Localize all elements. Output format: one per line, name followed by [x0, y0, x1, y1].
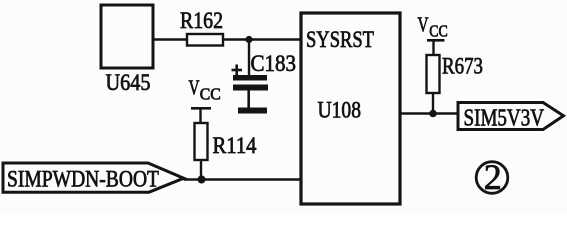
svg-text:U645: U645	[106, 70, 151, 95]
svg-text:CC: CC	[200, 85, 221, 104]
svg-text:2: 2	[484, 157, 502, 197]
net flag SIM5V3V	[458, 103, 564, 132]
svg-text:SIM5V3V: SIM5V3V	[464, 106, 545, 132]
resistor R162	[180, 8, 223, 46]
svg-text:CC: CC	[429, 21, 448, 40]
wire U645 to R162	[154, 38, 187, 40]
wire R162 to U108	[223, 38, 300, 40]
resistor R114	[195, 123, 257, 160]
svg-text:R162: R162	[180, 8, 223, 33]
ground	[238, 108, 267, 114]
svg-text:SYSRST: SYSRST	[306, 27, 374, 52]
svg-text:V: V	[418, 12, 429, 36]
svg-text:R673: R673	[442, 54, 483, 79]
node junction on SYSRST net	[245, 36, 252, 43]
wire node to R673	[432, 93, 434, 114]
wire flag to U108	[184, 178, 303, 180]
svg-text:R114: R114	[213, 133, 257, 158]
wire C183 to ground	[247, 91, 250, 108]
node junction on SIM5V3V net	[429, 110, 437, 118]
net flag SIMPWDN-BOOT	[3, 163, 184, 193]
power VCC (left)	[189, 76, 221, 124]
svg-text:C183: C183	[251, 51, 297, 76]
svg-text:U108: U108	[318, 98, 362, 123]
power VCC (right)	[418, 12, 448, 55]
node junction on SIMPWDN-BOOT net	[198, 176, 206, 184]
wire R114 to bottom net	[200, 160, 202, 180]
IC U108	[301, 13, 400, 204]
wire node to C183	[248, 40, 250, 76]
figure number 2	[476, 157, 508, 197]
resistor R673	[427, 54, 484, 94]
svg-text:V: V	[189, 76, 200, 100]
wire U108 output pin	[400, 112, 458, 114]
svg-text:SIMPWDN-BOOT: SIMPWDN-BOOT	[7, 167, 159, 193]
capacitor C183	[232, 51, 297, 91]
IC U645	[101, 5, 153, 95]
